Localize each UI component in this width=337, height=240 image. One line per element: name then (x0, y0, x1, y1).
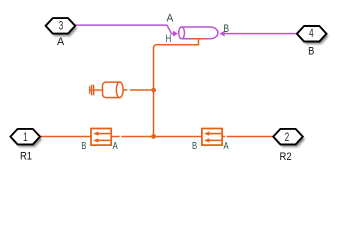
wire port1 to block B1 (orange bottom rail) (40, 136, 91, 138)
junction node (bottom rail) (151, 134, 156, 139)
svg-text:A: A (166, 12, 174, 24)
block B1 box (orange, two left arrows) (91, 129, 111, 146)
svg-text:A: A (57, 36, 65, 48)
svg-text:A: A (223, 140, 229, 151)
wire damper H: drop + run left + down to bottom node (orange) (154, 39, 199, 137)
wire damper H: overlap along cylinder bottom edge (orange) (190, 38, 205, 40)
svg-text:A: A (113, 140, 119, 151)
junction node (inertia tap) (151, 88, 156, 93)
block B2 box (orange, two left arrows) (202, 129, 222, 146)
svg-text:R2: R2 (280, 151, 292, 163)
svg-text:B: B (81, 140, 86, 151)
svg-text:4: 4 (309, 28, 314, 41)
svg-text:3: 3 (59, 20, 64, 33)
wire inertia to junction node (130, 89, 151, 91)
wire block B2 to port2 (orange bottom rail) (222, 136, 226, 138)
damper U1 cylinder body (magenta) (179, 27, 218, 39)
svg-text:B: B (223, 23, 229, 35)
port 2 hexagon (273, 129, 305, 147)
wire damper port B to port 4 (magenta) (224, 33, 297, 35)
inertia block: cylinder body (orange) (103, 82, 124, 98)
wire port3 to damper port A (magenta) (75, 25, 174, 33)
svg-text:B: B (308, 46, 314, 58)
port 4 hexagon (297, 26, 329, 44)
wire block B1 to block B2 (orange bottom rail) (111, 136, 120, 138)
svg-text:B: B (192, 140, 197, 151)
svg-text:1: 1 (23, 132, 28, 145)
port 3 hexagon (46, 18, 78, 36)
inertia block: clamp hatch bars (orange) (89, 85, 103, 96)
svg-text:R1: R1 (20, 151, 32, 163)
svg-text:H: H (166, 33, 172, 44)
svg-text:2: 2 (285, 132, 290, 145)
arrow into damper port B (220, 31, 225, 37)
port 1 hexagon (10, 129, 42, 147)
inertia port stub (123, 89, 127, 91)
arrow into damper port A (173, 31, 178, 37)
